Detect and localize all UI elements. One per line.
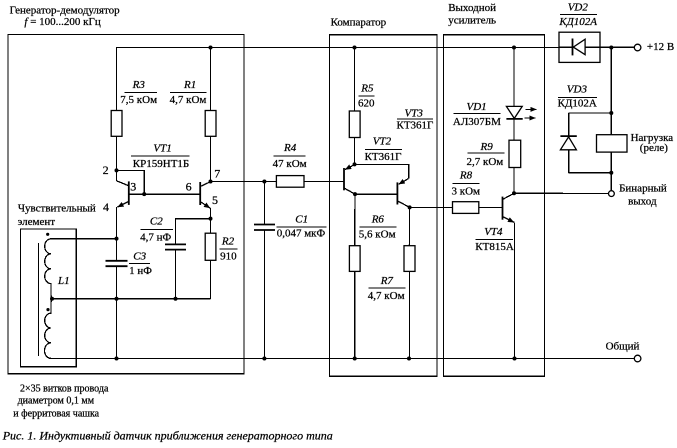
svg-text:f = 100...200 кГц: f = 100...200 кГц xyxy=(24,16,100,28)
label R8 3 kOhm xyxy=(452,170,481,198)
svg-text:Общий: Общий xyxy=(606,341,640,353)
resistor R5 xyxy=(349,48,360,165)
relay load K1 xyxy=(597,135,628,152)
wire centre tap lead xyxy=(52,298,211,300)
transistor VT3 xyxy=(355,179,410,208)
svg-text:47 кОм: 47 кОм xyxy=(273,158,307,170)
node junction VT4 collector xyxy=(512,191,516,195)
svg-text:КР159НТ1Б: КР159НТ1Б xyxy=(133,158,189,170)
svg-text:1 нФ: 1 нФ xyxy=(129,265,152,277)
wire top supply rail xyxy=(117,47,635,111)
wire node7 to comparator xyxy=(211,181,345,183)
node junction tap cross xyxy=(115,297,119,301)
resistor R8 xyxy=(453,202,503,214)
svg-text:R3: R3 xyxy=(132,79,146,91)
output amplifier block box xyxy=(444,35,545,377)
pin 2 label xyxy=(103,163,109,177)
label VD2 KD102A xyxy=(558,2,597,29)
svg-text:КТ361Г: КТ361Г xyxy=(397,120,434,132)
wire collector-base loop VT1.1 xyxy=(117,170,145,194)
svg-text:R4: R4 xyxy=(283,142,297,154)
svg-text:VT3: VT3 xyxy=(405,108,424,120)
wire VT3 emitter feed xyxy=(355,164,409,178)
svg-text:диаметром 0,1 мм: диаметром 0,1 мм xyxy=(18,396,95,407)
figure caption xyxy=(2,429,333,443)
label VD3 KD102A xyxy=(558,84,597,110)
svg-text:4,7 кОм: 4,7 кОм xyxy=(368,290,405,302)
svg-text:R9: R9 xyxy=(480,141,494,153)
node A pin2 junction xyxy=(115,168,119,172)
pin 3 label xyxy=(130,179,136,193)
svg-text:7,5 кОм: 7,5 кОм xyxy=(120,94,157,106)
svg-text:3: 3 xyxy=(130,179,136,193)
svg-text:КД102А: КД102А xyxy=(558,16,597,28)
comparator block title xyxy=(331,16,387,28)
node junction R1 top xyxy=(209,46,213,50)
node junction VT2 collector xyxy=(353,192,357,196)
node junction emitters VT2 VT3 xyxy=(353,162,357,166)
label R5 620 xyxy=(358,82,375,109)
node junction C1 tap xyxy=(262,180,266,184)
svg-text:4: 4 xyxy=(103,200,109,214)
label R7 4,7 kOhm xyxy=(368,275,406,302)
svg-text:7: 7 xyxy=(214,166,220,180)
resistor R7 xyxy=(404,207,415,358)
svg-text:АЛ307БМ: АЛ307БМ xyxy=(453,116,501,128)
inductor L1 xyxy=(38,233,52,359)
svg-text:VD3: VD3 xyxy=(567,84,588,96)
svg-text:R5: R5 xyxy=(360,82,374,94)
label winding note xyxy=(13,384,109,420)
svg-text:VT2: VT2 xyxy=(373,136,392,148)
node junction C1 bottom xyxy=(262,357,266,361)
svg-text:L1: L1 xyxy=(57,275,70,287)
node junction VT3 collector xyxy=(408,205,412,209)
node junction centre tap xyxy=(50,297,54,301)
svg-text:910: 910 xyxy=(220,250,237,262)
svg-text:КТ815А: КТ815А xyxy=(475,241,514,253)
pin 6 label xyxy=(186,179,192,193)
terminal common xyxy=(606,341,641,362)
label C2 4,7 nF xyxy=(140,215,173,243)
label L1 xyxy=(57,275,70,287)
node junction R6 bottom xyxy=(353,357,357,361)
sensor block box xyxy=(21,229,77,367)
label R3 7,5 kOhm xyxy=(120,79,157,106)
svg-text:5,6 кОм: 5,6 кОм xyxy=(359,228,396,240)
svg-text:4,7 нФ: 4,7 нФ xyxy=(140,231,171,243)
label VD1 AL307BM xyxy=(453,101,501,128)
svg-text:Выходной: Выходной xyxy=(448,2,496,14)
node B junction on base wire xyxy=(142,192,146,196)
transistor VT1.2 xyxy=(200,182,210,234)
svg-text:VT4: VT4 xyxy=(484,226,503,238)
wire relay branch xyxy=(610,47,612,190)
terminal +12V xyxy=(634,41,674,53)
transistor VT1.1 xyxy=(117,170,129,238)
pin 7 label xyxy=(214,166,220,180)
svg-text:+12 В: +12 В xyxy=(647,41,674,53)
svg-text:С1: С1 xyxy=(295,214,308,226)
label VT2 KT361G xyxy=(365,136,402,163)
label load relay xyxy=(631,132,674,154)
svg-text:R6: R6 xyxy=(371,214,385,226)
wire binary output xyxy=(514,192,609,194)
svg-text:VD2: VD2 xyxy=(568,2,589,14)
diode VD1 LED xyxy=(506,48,536,141)
label VT4 KT815A xyxy=(475,226,514,253)
diode VD3 xyxy=(560,113,611,173)
wire L1 top lead xyxy=(51,238,117,240)
wire common base VT1 xyxy=(129,193,200,195)
pin 5 label xyxy=(212,193,218,207)
generator block title xyxy=(10,4,121,28)
resistor R4 xyxy=(276,176,304,188)
svg-text:2: 2 xyxy=(103,163,109,177)
svg-text:R8: R8 xyxy=(459,170,473,182)
output amplifier block title xyxy=(448,2,496,27)
label C1 0,047 uF xyxy=(277,214,327,240)
node junction R5 top xyxy=(353,46,357,50)
svg-text:VT1: VT1 xyxy=(153,143,171,155)
sensor block title xyxy=(18,203,96,228)
label R9 2,7 kOhm xyxy=(467,141,505,168)
svg-text:4,7 кОм: 4,7 кОм xyxy=(170,94,207,106)
node junction VD1 top xyxy=(512,46,516,50)
node junction relay branch top xyxy=(609,46,613,50)
label R1 4,7 kOhm xyxy=(170,79,207,106)
diode VD2 xyxy=(559,32,600,62)
svg-text:Генератор-демодулятор: Генератор-демодулятор xyxy=(10,4,121,16)
svg-text:и ферритовая чашка: и ферритовая чашка xyxy=(13,409,99,420)
node junction VT4 emitter bottom xyxy=(513,357,517,361)
capacitor C3 xyxy=(106,239,128,359)
svg-text:VD1: VD1 xyxy=(467,101,487,113)
svg-text:КТ361Г: КТ361Г xyxy=(365,151,402,163)
pin 4 label xyxy=(103,200,109,214)
resistor R1 xyxy=(205,48,216,182)
label VT3 KT361G xyxy=(397,108,434,132)
svg-text:620: 620 xyxy=(358,98,375,110)
svg-text:0,047 мкФ: 0,047 мкФ xyxy=(277,228,326,240)
label VT1 KR159NT1B xyxy=(131,143,190,170)
svg-text:С3: С3 xyxy=(133,251,146,263)
svg-text:R2: R2 xyxy=(221,235,235,247)
svg-text:С2: С2 xyxy=(150,215,163,227)
svg-text:Компаратор: Компаратор xyxy=(331,16,387,28)
svg-text:Рис. 1. Индуктивный датчик при: Рис. 1. Индуктивный датчик приближения г… xyxy=(2,429,333,443)
resistor R3 xyxy=(111,111,122,171)
svg-text:Чувствительный: Чувствительный xyxy=(18,203,96,215)
label binary output xyxy=(619,183,667,208)
svg-text:элемент: элемент xyxy=(18,216,56,228)
svg-text:5: 5 xyxy=(212,193,218,207)
resistor R9 xyxy=(509,140,521,193)
svg-text:R7: R7 xyxy=(380,275,394,287)
node junction pin7 xyxy=(209,180,213,184)
label C3 1 nF xyxy=(129,251,152,278)
comparator block box xyxy=(330,35,438,377)
generator block box xyxy=(8,35,244,374)
transistor VT2 xyxy=(344,165,355,195)
wire bottom common rail xyxy=(51,358,634,360)
resistor R6 xyxy=(349,194,360,358)
svg-text:Бинарный: Бинарный xyxy=(619,183,667,195)
capacitor C2 xyxy=(165,219,211,299)
svg-text:6: 6 xyxy=(186,179,192,193)
svg-text:усилитель: усилитель xyxy=(448,15,496,27)
svg-text:2×35 витков провода: 2×35 витков провода xyxy=(20,384,109,395)
capacitor C1 xyxy=(254,182,275,359)
svg-text:R1: R1 xyxy=(183,79,196,91)
resistor R2 xyxy=(205,233,216,299)
node junction C3 bottom xyxy=(115,357,119,361)
node junction VD3 top xyxy=(609,111,613,115)
node junction R7 bottom xyxy=(407,357,411,361)
node junction L1 top wire xyxy=(115,237,119,241)
svg-text:КД102А: КД102А xyxy=(558,97,597,109)
svg-text:2,7 кОм: 2,7 кОм xyxy=(467,156,504,168)
node junction VD3 bottom xyxy=(609,171,613,175)
node junction pin5 C2 tap xyxy=(209,217,213,221)
svg-text:(реле): (реле) xyxy=(640,142,668,154)
label R2 910 xyxy=(220,235,238,262)
label R6 5,6 kOhm xyxy=(359,214,397,241)
svg-text:выход: выход xyxy=(628,195,657,207)
terminal binary output xyxy=(609,191,615,197)
node junction C2 bottom xyxy=(174,297,178,301)
svg-text:3 кОм: 3 кОм xyxy=(452,185,481,197)
label R4 47 kOhm xyxy=(273,142,307,170)
transistor VT4 xyxy=(503,193,515,358)
wire VT3 collector to R8 xyxy=(410,206,453,208)
